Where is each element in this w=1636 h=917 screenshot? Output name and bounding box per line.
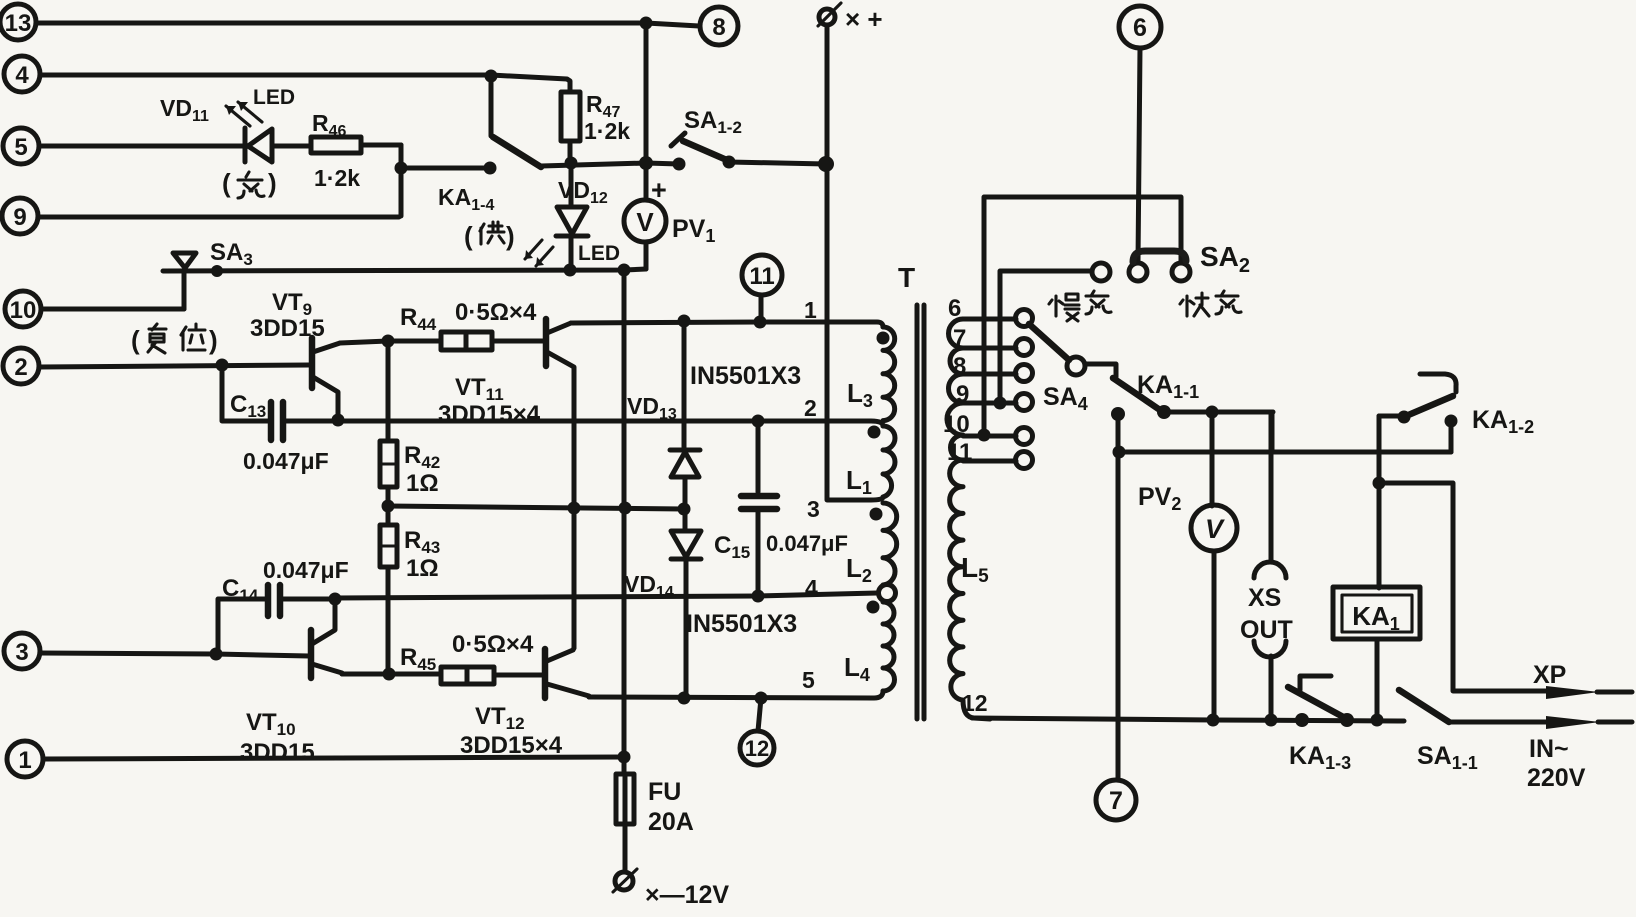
terminal circle 6 <box>1119 6 1161 48</box>
svg-text:LED: LED <box>578 242 620 265</box>
svg-text:8: 8 <box>953 353 966 380</box>
node PV2 bottom <box>1207 714 1220 727</box>
svg-text:3DD15: 3DD15 <box>240 739 315 766</box>
plug XP arrow <box>1546 686 1632 699</box>
wire 2 horizontal (to transformer tap 2) <box>285 421 883 426</box>
label R42 <box>404 442 440 497</box>
node VD12 bottom <box>564 264 577 277</box>
terminal circle 4 <box>4 56 40 92</box>
label C15 <box>714 531 848 562</box>
tap wire 9 <box>956 381 1016 408</box>
svg-text:0.047μF: 0.047μF <box>243 448 329 474</box>
label L5 <box>961 552 989 587</box>
tap wire 11 <box>947 439 1016 466</box>
node on wire 13 <box>640 17 653 30</box>
wire SA1-2 to X+ line <box>729 162 826 164</box>
label + <box>651 175 667 205</box>
polarity dot L2 <box>870 508 883 521</box>
svg-text:20A: 20A <box>648 808 694 836</box>
label L1 <box>846 465 872 498</box>
wire 5 horizontal (to transformer tap 5) <box>589 691 883 698</box>
node FU column top <box>618 264 631 277</box>
winding L2 <box>883 503 897 585</box>
label tap 12 <box>962 690 988 716</box>
LED VD12 <box>525 163 588 270</box>
terminal X+ <box>818 3 841 26</box>
terminal circle 2 <box>3 348 39 384</box>
plug IN arrow <box>1546 716 1632 729</box>
label L3 <box>847 378 873 411</box>
resistor R42 <box>380 341 397 525</box>
LED VD11 <box>226 102 311 162</box>
label X+ <box>845 4 883 34</box>
label SA4 <box>1043 383 1088 414</box>
label VT9 <box>250 289 325 342</box>
resistor R46 <box>311 137 401 153</box>
wire stub to KA1-4 contact <box>401 166 488 171</box>
svg-text:0·5Ω×4: 0·5Ω×4 <box>452 631 534 658</box>
node R42 top <box>382 335 395 348</box>
resistor R45 <box>441 667 543 684</box>
label PV1 <box>672 215 715 246</box>
wire X+ down to transformer tap3 <box>827 26 883 500</box>
svg-text:T: T <box>898 262 915 293</box>
wire 1 horizontal (VT11 collector to transformer tap 1) <box>571 322 883 327</box>
node terminal-12 riser on wire5 <box>755 692 768 705</box>
svg-text:4: 4 <box>15 62 29 89</box>
switch SA3 <box>173 253 196 309</box>
label KA1-3 <box>1289 742 1351 773</box>
label X-12V <box>645 881 729 909</box>
bus wire row 452 <box>1119 450 1451 455</box>
label C13 <box>230 391 329 474</box>
slow-charge contact <box>1092 263 1110 281</box>
label KA1-2 <box>1472 406 1534 437</box>
svg-text:11: 11 <box>749 263 774 290</box>
tap 4 terminal circle on winding <box>879 585 896 602</box>
wire from terminal 9 <box>38 215 399 220</box>
svg-text:V: V <box>636 207 654 237</box>
svg-text:12: 12 <box>745 736 769 761</box>
svg-text:IN5501X3: IN5501X3 <box>690 362 801 390</box>
svg-text:3: 3 <box>807 496 820 522</box>
label IN5501X3 upper <box>690 362 801 390</box>
svg-text:(: ( <box>464 221 473 251</box>
svg-text:× +: × + <box>845 4 883 34</box>
svg-text:): ) <box>209 325 218 355</box>
VT9 collector wire <box>340 341 441 343</box>
svg-text:13: 13 <box>5 10 32 37</box>
winding L5 <box>947 319 990 719</box>
svg-text:V: V <box>1205 514 1225 544</box>
svg-text:(: ( <box>222 168 231 198</box>
wire terminal6 down to SA2 <box>1138 48 1140 262</box>
tap wire 7 <box>953 325 1016 352</box>
terminal circle 1 <box>7 741 43 777</box>
wire from terminal 2 <box>39 365 309 367</box>
switch SA1-2 <box>671 133 729 171</box>
label tap 1 <box>804 297 817 323</box>
svg-text:IN~: IN~ <box>1529 735 1569 763</box>
bottom bus from transformer tap 12 <box>972 718 1404 721</box>
label VD13 <box>627 393 677 423</box>
tap contact 11 <box>1016 452 1033 469</box>
wire KA1-2 down to relay branch <box>1377 416 1382 588</box>
terminal X-12V <box>613 869 637 892</box>
label R44 <box>400 299 537 334</box>
transistor VT10 <box>311 599 342 678</box>
svg-text:1: 1 <box>804 297 817 323</box>
label LED (bottom) <box>578 242 620 265</box>
svg-text:1·2k: 1·2k <box>584 118 630 144</box>
switch SA4 blade <box>1029 324 1069 360</box>
diode VD13 <box>670 322 700 531</box>
label SA2 <box>1200 241 1250 277</box>
transistor VT9 <box>312 338 340 420</box>
tap contact 8 <box>1016 365 1033 382</box>
wire SA4 to KA1-1 <box>1085 364 1116 377</box>
svg-text:5: 5 <box>14 134 27 161</box>
tap contact 7 <box>1016 339 1033 356</box>
wire KA1-1 to right node <box>1164 410 1273 415</box>
node terminal 11 on wire1 <box>754 316 767 329</box>
label VD12 <box>558 177 608 207</box>
label SA3 <box>210 239 253 269</box>
node VT11 emitter on wire3 <box>568 502 581 515</box>
node wire4 / KA1-4 <box>485 70 498 83</box>
svg-text:OUT: OUT <box>1240 616 1293 644</box>
svg-text:3DD15×4: 3DD15×4 <box>438 401 541 428</box>
svg-text:(: ( <box>131 325 140 355</box>
node on SA3 wire <box>211 265 223 277</box>
svg-text:XP: XP <box>1533 661 1566 689</box>
label LED (top) <box>253 86 295 109</box>
node SA1-2 blade tip <box>723 156 736 169</box>
label VT12 <box>460 703 563 759</box>
svg-text:): ) <box>268 168 277 198</box>
label tap 4 <box>805 575 818 601</box>
node FU line on wire3 <box>619 502 632 515</box>
svg-text:220V: 220V <box>1527 764 1586 792</box>
wire from terminal 4 <box>40 75 570 92</box>
svg-text:3DD15: 3DD15 <box>250 315 325 342</box>
bracket wire R46 to wire9 <box>399 145 404 216</box>
wire fast-charge branch <box>984 197 1181 435</box>
wire from terminal 3 <box>40 653 309 656</box>
svg-text:): ) <box>506 221 515 251</box>
wire from terminal 5 <box>39 144 245 149</box>
label R43 <box>404 527 440 582</box>
terminal circle 10 <box>5 291 41 327</box>
node XS bottom <box>1265 714 1278 727</box>
node VT9 emitter on wire2 <box>332 414 345 427</box>
terminal circle 9 <box>2 198 38 234</box>
svg-text:3: 3 <box>15 639 28 666</box>
svg-text:×—12V: ×—12V <box>645 881 729 909</box>
switch KA1-3 <box>1288 676 1354 727</box>
label tap 5 <box>802 667 815 693</box>
svg-text:7: 7 <box>1109 787 1123 815</box>
node relay/XP branch <box>1373 477 1386 490</box>
svg-text:11: 11 <box>947 439 972 466</box>
terminal circle 5 <box>3 128 39 164</box>
KA1-4 left contact node <box>484 162 497 175</box>
capacitor C13 <box>222 365 309 440</box>
terminal circle 3 <box>4 633 40 669</box>
label T <box>898 262 915 293</box>
label VT11 <box>438 374 541 428</box>
label L4 <box>844 652 870 685</box>
svg-text:2: 2 <box>804 395 817 421</box>
svg-text:FU: FU <box>648 778 681 806</box>
svg-text:0.047μF: 0.047μF <box>263 557 349 583</box>
label VD14 <box>624 571 674 601</box>
svg-text:5: 5 <box>802 667 815 693</box>
wire KA1-4 blade to SA1-2 <box>541 163 679 166</box>
label R45 <box>400 631 534 674</box>
switch KA1-2 <box>1379 374 1456 452</box>
label L2 <box>846 553 872 586</box>
svg-text:10: 10 <box>10 297 37 324</box>
switch KA1-4 <box>491 76 541 167</box>
svg-text:IN5501X3: IN5501X3 <box>686 610 797 638</box>
label PV2 <box>1138 483 1181 514</box>
tap wire 8 <box>953 353 1016 380</box>
wire relay to bus <box>1375 639 1380 720</box>
wire from terminal 10 <box>41 307 184 312</box>
terminal circle 7 <box>1096 780 1136 820</box>
socket XS <box>1254 412 1286 720</box>
svg-text:2: 2 <box>14 354 27 381</box>
label R46 <box>312 110 360 191</box>
diode VD14 <box>671 531 701 698</box>
svg-text:9: 9 <box>956 381 969 408</box>
tap wire 10 <box>943 411 1016 438</box>
switch KA1-1 blade <box>1113 378 1163 412</box>
label tap 3 <box>807 496 820 522</box>
emitter bus VT10 to R45 <box>342 672 441 677</box>
node wire3term/C14 riser <box>210 648 223 661</box>
voltmeter PV1 <box>624 200 666 269</box>
transistor VT11 <box>546 319 574 648</box>
terminal circle 12 <box>740 698 774 765</box>
transistor VT12 <box>545 648 589 698</box>
winding L1 <box>883 426 895 497</box>
label IN~ 220V <box>1527 735 1586 792</box>
tap contact 10 <box>1016 428 1033 445</box>
svg-text:9: 9 <box>13 204 26 231</box>
resistor R43 <box>380 525 397 674</box>
polarity dot L1 <box>868 426 881 439</box>
wire from terminal 1 <box>43 757 624 759</box>
wire node down to bus (continues to XS) <box>1270 412 1275 452</box>
svg-text:10: 10 <box>943 411 970 438</box>
label FU 20A <box>648 778 694 836</box>
svg-text:1Ω: 1Ω <box>406 555 439 582</box>
label XS OUT <box>1240 584 1293 644</box>
terminal circle 8 <box>700 7 738 45</box>
node VD13/VD14 on wire3 <box>678 503 691 516</box>
node R42/R43 junction <box>382 500 395 513</box>
label R47 <box>584 91 630 144</box>
label VT10 <box>240 709 315 766</box>
switch SA2 bridge <box>1133 251 1186 262</box>
svg-text:12: 12 <box>962 690 988 716</box>
wire from wire13 node down to PV1 <box>644 23 649 199</box>
label man-chong slow charge <box>1049 291 1111 321</box>
capacitor C14 <box>218 585 334 654</box>
switch SA2 contacts <box>1129 263 1190 281</box>
svg-text:4: 4 <box>805 575 818 601</box>
svg-text:1: 1 <box>18 747 31 774</box>
svg-text:LED: LED <box>253 86 295 109</box>
node bus left end <box>1113 446 1126 459</box>
label KA1-1 <box>1137 371 1199 402</box>
winding L3 <box>883 327 895 421</box>
node VD14 bottom on wire5 <box>678 692 691 705</box>
node KA1-1 output <box>1157 405 1171 419</box>
svg-text:8: 8 <box>712 14 725 41</box>
node R43 bottom on emitter bus <box>383 668 396 681</box>
tap contact 9 <box>1016 394 1033 411</box>
winding L4 <box>883 602 895 691</box>
svg-text:7: 7 <box>953 325 966 352</box>
label (chong) charge <box>222 168 277 198</box>
terminal circle 13 <box>0 4 36 40</box>
node wire2/C13 riser <box>216 359 229 372</box>
node C15 bottom on wire4 <box>752 590 765 603</box>
node junction 646,163 <box>639 156 653 170</box>
node fuse top / terminal1 wire <box>618 751 631 764</box>
node R47/VD12 top <box>565 157 578 170</box>
polarity dot L3 <box>877 332 890 345</box>
voltmeter PV2 <box>1191 412 1237 720</box>
node relay bottom <box>1371 714 1384 727</box>
label (fuwei) reset <box>131 324 218 355</box>
wire from terminal 13 <box>36 23 699 26</box>
SA4 pivot contact <box>1067 357 1085 375</box>
node VT10 collector on wire4 <box>329 593 342 606</box>
label C14 <box>222 557 349 605</box>
node on R46-wire9 bracket <box>395 162 408 175</box>
transformer T core <box>917 305 924 719</box>
node X+ line junction <box>818 156 834 172</box>
svg-text:6: 6 <box>1133 14 1147 42</box>
wire branch to XP column <box>1379 483 1546 691</box>
svg-text:0.047μF: 0.047μF <box>766 531 848 556</box>
capacitor C15 <box>741 421 777 596</box>
wire 3 horizontal <box>388 506 684 509</box>
terminal circle 11 <box>742 255 782 322</box>
label (gong) supply <box>464 221 515 251</box>
label SA1-2 <box>684 107 742 137</box>
node on tap9 wire <box>994 397 1007 410</box>
SA3 output wire to VD12 bottom and PV1 bottom <box>163 269 646 271</box>
fuse FU 20A <box>616 774 634 872</box>
tap wire 6 <box>948 295 1016 322</box>
label tap 2 <box>804 395 817 421</box>
label KA1-4 <box>438 184 494 214</box>
wire slow-charge branch <box>1000 271 1091 403</box>
tap contact 6 <box>1016 310 1033 327</box>
svg-text:1·2k: 1·2k <box>314 165 360 191</box>
svg-text:1Ω: 1Ω <box>406 470 439 497</box>
label kuai-chong fast charge <box>1180 291 1241 316</box>
wire KA1-1 contact down to terminal 7 <box>1116 414 1121 780</box>
node PV2 tap <box>1206 406 1219 419</box>
KA1-2 right contact <box>1445 415 1458 453</box>
label XP <box>1533 661 1566 689</box>
node KA1-1 left contact <box>1111 407 1125 421</box>
node on tap10 wire <box>978 429 991 442</box>
label VD11 <box>160 95 209 125</box>
svg-text:0·5Ω×4: 0·5Ω×4 <box>455 299 537 326</box>
node VD13 top on wire1 <box>678 315 691 328</box>
svg-text:XS: XS <box>1248 584 1281 612</box>
long vertical LED junction to fuse <box>622 270 627 774</box>
svg-text:+: + <box>651 175 667 205</box>
node C15 top on wire2 <box>752 415 765 428</box>
polarity dot L4 <box>867 601 880 614</box>
label SA1-1 <box>1417 742 1478 773</box>
relay coil KA1 <box>1333 587 1420 639</box>
wire 4 horizontal (to transformer tap 4) <box>334 593 877 598</box>
label IN5501X3 lower <box>686 610 797 638</box>
resistor R44 <box>441 332 544 350</box>
switch SA1-1 <box>1399 690 1546 722</box>
svg-text:6: 6 <box>948 295 961 322</box>
resistor R47 <box>561 92 580 162</box>
